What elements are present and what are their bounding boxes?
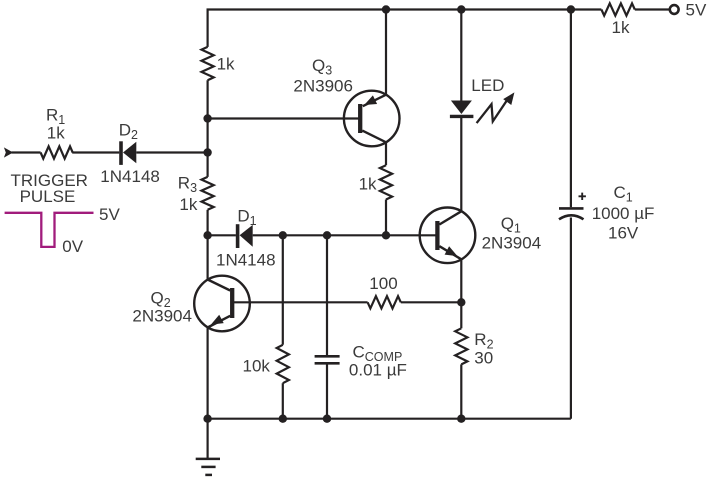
wire <box>460 364 462 418</box>
diode D1 1N4148 <box>236 224 240 248</box>
svg-text:1k: 1k <box>612 18 630 37</box>
wire: left vertical (node A column) <box>207 10 209 47</box>
wire: LED column from rail <box>460 10 462 101</box>
svg-text:30: 30 <box>474 349 493 368</box>
svg-text:5V: 5V <box>686 1 707 20</box>
wire <box>326 365 328 419</box>
ground <box>196 459 220 475</box>
wire: Q3 collector <box>385 142 387 165</box>
transistor Q3 2N3906 (PNP) <box>344 91 400 147</box>
wire: Q2 emitter down <box>207 328 209 419</box>
wire: 10k column <box>282 235 284 344</box>
wire: C1 column <box>570 10 572 208</box>
wire <box>72 151 119 153</box>
svg-text:5V: 5V <box>99 205 120 224</box>
resistor R2 30 <box>455 328 467 364</box>
svg-text:1k: 1k <box>217 55 235 74</box>
LED diode <box>451 101 472 115</box>
wire <box>207 210 209 236</box>
wire: LED to Q1 collector <box>460 118 462 211</box>
trigger pulse waveform <box>5 213 94 247</box>
wire <box>282 383 284 419</box>
wire: Q3 base wire <box>208 117 359 119</box>
wire: Ccomp column <box>326 235 328 355</box>
resistor 100 <box>368 296 401 308</box>
svg-text:1N4148: 1N4148 <box>100 167 160 186</box>
transistor Q2 2N3904 (NPN, mirrored) <box>194 276 250 332</box>
wire: D1 to Q1 base <box>253 234 437 236</box>
resistor 1k (pull-up, left column) <box>202 47 214 80</box>
svg-text:1k: 1k <box>47 124 65 143</box>
svg-text:PULSE: PULSE <box>20 187 76 206</box>
svg-text:2N3906: 2N3906 <box>293 77 353 96</box>
wire: Q1 emitter down <box>460 259 462 302</box>
resistor R3 1k <box>202 177 214 210</box>
svg-text:0.01 µF: 0.01 µF <box>349 361 407 380</box>
terminal 5V (open circle) <box>670 5 679 14</box>
wire: top +5V rail <box>207 8 571 10</box>
wire <box>207 80 209 177</box>
diode D2 1N4148 <box>119 141 123 165</box>
resistor R1 1k <box>41 146 73 158</box>
junction dots <box>382 5 390 13</box>
svg-text:1000 µF: 1000 µF <box>592 204 655 223</box>
wire: Q2 collector up <box>207 235 209 279</box>
capacitor Ccomp 0.01uF <box>315 355 340 358</box>
wire: Q2 base / 100 ohm wire <box>232 301 367 303</box>
wire <box>570 218 572 419</box>
wire <box>12 151 41 153</box>
wire <box>385 200 387 236</box>
svg-text:1k: 1k <box>179 195 197 214</box>
wire: bottom ground rail <box>208 418 571 420</box>
svg-text:16V: 16V <box>608 224 639 243</box>
svg-text:LED: LED <box>471 76 504 95</box>
wire: mid wire with D1 <box>208 234 236 236</box>
capacitor C1 1000uF 16V (polarized) <box>559 207 584 210</box>
svg-text:100: 100 <box>369 274 397 293</box>
transistor Q1 2N3904 (NPN) <box>420 208 476 264</box>
svg-text:1N4148: 1N4148 <box>216 251 276 270</box>
wire: Q3 emitter to rail <box>385 10 387 95</box>
svg-text:10k: 10k <box>243 357 271 376</box>
svg-text:1k: 1k <box>359 175 377 194</box>
trigger input arrow <box>4 147 13 157</box>
LED light arrow <box>477 100 508 124</box>
resistor 10k <box>277 345 289 383</box>
svg-text:2N3904: 2N3904 <box>132 306 192 325</box>
svg-text:2N3904: 2N3904 <box>482 234 542 253</box>
wire <box>136 151 207 153</box>
resistor 1k (Q3 collector) <box>380 165 392 199</box>
wire <box>460 302 462 328</box>
svg-text:0V: 0V <box>62 237 83 256</box>
resistor 1k (5V feed, top right) <box>571 8 602 10</box>
wire: ground stub <box>207 419 209 459</box>
wire <box>401 301 462 303</box>
